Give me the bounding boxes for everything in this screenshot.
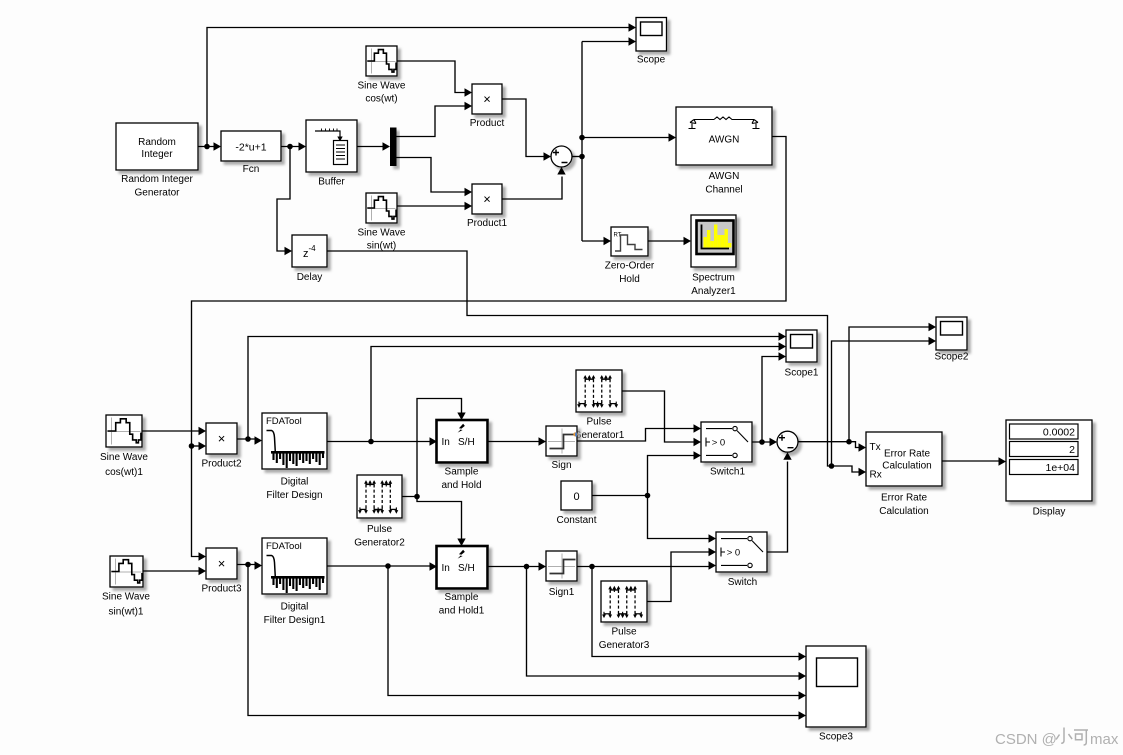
wire Product3 to Digital Filter Design1: [237, 561, 262, 569]
wire bus to Zero-Order Hold: [582, 237, 611, 245]
wire Switch1 output to Sum1 and Scope1 input3: [752, 352, 786, 446]
block Product3: [201, 548, 241, 595]
svg-text:Sine Wave: Sine Wave: [102, 592, 150, 603]
block Scope3: [806, 646, 866, 743]
wire Error Rate Calculation to Display: [942, 457, 1006, 465]
block Delay z^-4: [292, 235, 327, 283]
wire Product2 to Digital Filter Design: [237, 436, 262, 444]
svg-text:-4: -4: [309, 244, 317, 253]
wire AWGN feedback to Product2/Product3: [192, 137, 787, 561]
block Product1: [467, 184, 507, 229]
sum junction Sum (+ -): [551, 146, 572, 167]
block Zero-Order Hold: [605, 227, 655, 285]
svg-text:Generator3: Generator3: [599, 640, 650, 651]
wire Sine Wave cos to Product input1: [397, 61, 472, 97]
wire Product2 junction up to Scope1 input1: [248, 332, 786, 439]
svg-text:Sine Wave: Sine Wave: [100, 452, 148, 463]
wire Buffer to demux: [357, 142, 390, 150]
svg-text:Random Integer: Random Integer: [121, 174, 193, 185]
block Display: [1006, 420, 1092, 518]
svg-text:Product2: Product2: [201, 459, 241, 470]
svg-text:AWGN: AWGN: [709, 135, 740, 146]
node junction DFD1 output: [385, 563, 391, 569]
svg-text:Filter Design1: Filter Design1: [264, 615, 326, 626]
node junction Sign1 output: [589, 564, 595, 570]
svg-text:Zero-Order: Zero-Order: [605, 261, 655, 272]
svg-text:> 0: > 0: [727, 548, 740, 559]
block Spectrum Analyzer1: [691, 215, 736, 297]
svg-text:Error Rate: Error Rate: [884, 449, 931, 460]
svg-text:Sign1: Sign1: [549, 587, 575, 598]
block Sample and Hold: [437, 420, 488, 491]
svg-text:Product3: Product3: [201, 584, 241, 595]
block Switch1: [701, 422, 752, 478]
node junction Product2 output: [245, 436, 251, 442]
svg-text:Channel: Channel: [705, 185, 742, 196]
svg-text:Spectrum: Spectrum: [692, 273, 735, 284]
svg-text:×: ×: [483, 192, 491, 207]
wire Pulse Generator3 to Switch input2: [647, 548, 716, 602]
block Sign: [546, 426, 578, 471]
wire Sine Wave sin to Product1 input2: [397, 202, 472, 210]
block Pulse Generator1: [574, 370, 625, 441]
svg-text:Sine Wave: Sine Wave: [358, 228, 406, 239]
wire Delay-line junction to Rx and Scope2 input2: [832, 337, 937, 476]
svg-text:Product1: Product1: [467, 218, 507, 229]
wire DFD1 junction down to Scope3 input3: [388, 566, 806, 700]
wire Sign1 junction down to Scope3 input1: [592, 567, 806, 661]
node junction DFD output: [368, 439, 374, 445]
svg-text:Sample: Sample: [445, 467, 479, 478]
wire demux out2 to Product1 input1: [397, 158, 473, 197]
wire Sine sin1 to Product3 input2: [143, 567, 206, 575]
svg-text:Pulse: Pulse: [611, 627, 636, 638]
wire Product3 junction down to Scope3 input4: [248, 565, 806, 720]
wire Delay output long path to Rx: [327, 251, 832, 466]
svg-text:Calculation: Calculation: [879, 506, 928, 517]
wire DFD junction up to Scope1 input2: [371, 342, 786, 441]
wire Constant to Switch1 input3 and Switch input1: [592, 451, 716, 542]
svg-text:Digital: Digital: [281, 602, 309, 613]
demux bar: [390, 128, 397, 167]
block Error Rate Calculation: [866, 432, 942, 517]
svg-text:Scope2: Scope2: [935, 352, 969, 363]
svg-text:×: ×: [218, 431, 226, 446]
node junction Product3 output: [245, 562, 251, 568]
block Digital Filter Design1 FDATool: [262, 538, 327, 626]
svg-text:Pulse: Pulse: [367, 524, 392, 535]
block Switch: [716, 532, 767, 588]
svg-text:Calculation: Calculation: [882, 461, 931, 472]
svg-text:and Hold1: and Hold1: [439, 606, 485, 617]
svg-text:AWGN: AWGN: [709, 171, 740, 182]
svg-text:Scope: Scope: [637, 55, 666, 66]
svg-text:0.0002: 0.0002: [1043, 427, 1075, 439]
svg-text:Product: Product: [470, 118, 505, 129]
block Product: [470, 84, 505, 129]
svg-text:In: In: [442, 563, 450, 574]
block Buffer: [306, 120, 357, 188]
wire Zero-Order Hold to Spectrum Analyzer1: [648, 237, 691, 245]
svg-text:0: 0: [573, 491, 579, 503]
block Random Integer Generator: [116, 123, 198, 199]
watermark CSDN: [995, 728, 1119, 749]
wire Sum1 output to Tx and Scope2 input1: [798, 323, 936, 452]
wire Sign1 to Switch input3: [577, 561, 716, 569]
wire Sum output to vertical bus: [572, 156, 582, 158]
wire Product to Sum: [502, 99, 551, 161]
block Sine Wave cos(wt)1: [100, 415, 148, 478]
svg-text:2: 2: [1069, 444, 1075, 456]
wire Sample and Hold1 to Sign1: [488, 562, 547, 570]
node junction delay to Rx: [829, 463, 835, 469]
svg-text:S/H: S/H: [458, 563, 475, 574]
svg-text:FDATool: FDATool: [266, 416, 302, 427]
block Scope2: [935, 317, 969, 363]
svg-text:Sample: Sample: [445, 592, 479, 603]
wire Pulse Generator1 to Switch1 input2: [622, 391, 701, 446]
block Pulse Generator3: [599, 581, 650, 651]
svg-text:Fcn: Fcn: [243, 164, 260, 175]
wire Sample and Hold to Sign: [488, 437, 547, 445]
svg-text:Buffer: Buffer: [318, 177, 345, 188]
block Scope1: [785, 330, 819, 379]
svg-text:In: In: [442, 437, 450, 448]
block Fcn -2*u+1: [221, 131, 281, 175]
svg-text:FDATool: FDATool: [266, 541, 302, 552]
node junction after Fcn: [287, 144, 293, 150]
block Digital Filter Design FDATool: [262, 413, 327, 501]
node junction Pulse Generator2 output: [414, 494, 420, 500]
block AWGN Channel: [676, 107, 772, 196]
svg-text:Hold: Hold: [619, 274, 640, 285]
svg-text:Delay: Delay: [297, 272, 323, 283]
wire Product1 to Sum bottom: [502, 167, 566, 199]
wire Digital Filter Design1 to Sample and Hold1: [327, 562, 437, 570]
svg-text:Generator1: Generator1: [574, 430, 625, 441]
node junction feedback to Product2: [189, 442, 206, 450]
svg-text:Filter Design: Filter Design: [266, 490, 322, 501]
svg-text:Scope1: Scope1: [785, 368, 819, 379]
node junction Sum1 output: [846, 439, 852, 445]
block Product2: [201, 423, 241, 470]
block Sine Wave cos(wt): [358, 46, 406, 105]
svg-text:sin(wt)1: sin(wt)1: [108, 607, 143, 618]
svg-text:1e+04: 1e+04: [1046, 462, 1076, 474]
wire bus to AWGN input: [582, 133, 676, 141]
node junction to AWGN: [579, 135, 585, 141]
svg-text:Sign: Sign: [551, 460, 571, 471]
wire Switch output up to Sum1 bottom: [767, 452, 792, 552]
wire demux out1 to Product input2: [397, 102, 473, 137]
block Sine Wave sin(wt): [358, 193, 406, 252]
svg-text:Error Rate: Error Rate: [881, 493, 928, 504]
wire Digital Filter Design to Sample and Hold: [327, 437, 437, 445]
wire bus to Scope input2: [582, 37, 636, 45]
node junction sum output: [579, 154, 585, 160]
svg-text:and Hold: and Hold: [441, 480, 481, 491]
node junction Switch1 output: [759, 439, 765, 445]
wire junction up to Scope input1: [207, 23, 636, 146]
svg-text:Pulse: Pulse: [586, 417, 611, 428]
svg-text:Generator: Generator: [134, 188, 180, 199]
wire Sign to Switch1 input1: [577, 424, 701, 441]
block Pulse Generator2: [354, 475, 405, 549]
node junction Constant output: [645, 493, 651, 499]
svg-text:CSDN @: CSDN @: [995, 731, 1057, 748]
svg-text:-2*u+1: -2*u+1: [235, 142, 266, 154]
svg-text:Analyzer1: Analyzer1: [691, 286, 736, 297]
svg-text:> 0: > 0: [712, 438, 725, 449]
node junction after Random Integer: [204, 144, 210, 150]
svg-text:S/H: S/H: [458, 437, 475, 448]
svg-text:sin(wt): sin(wt): [367, 241, 396, 252]
svg-text:Switch: Switch: [728, 577, 757, 588]
wire Sine cos1 to Product2 input1: [142, 427, 206, 435]
block Sample and Hold1: [437, 546, 488, 617]
svg-text:Random: Random: [138, 137, 176, 148]
svg-text:cos(wt): cos(wt): [365, 94, 397, 105]
svg-text:cos(wt)1: cos(wt)1: [105, 467, 143, 478]
svg-text:Sine Wave: Sine Wave: [358, 81, 406, 92]
svg-text:×: ×: [483, 92, 491, 107]
svg-text:Generator2: Generator2: [354, 538, 405, 549]
sum junction Sum1 (+ -): [777, 431, 798, 452]
wire junction down to Delay input: [277, 147, 292, 256]
svg-text:×: ×: [218, 556, 226, 571]
svg-text:Integer: Integer: [141, 149, 173, 160]
svg-text:max: max: [1090, 731, 1119, 748]
svg-text:Tx: Tx: [870, 442, 881, 453]
block Sign1: [546, 551, 577, 598]
block Constant 0: [556, 481, 596, 526]
block Scope: [636, 18, 667, 66]
wire Fcn to Buffer: [281, 142, 306, 150]
svg-text:Display: Display: [1033, 507, 1066, 518]
svg-text:Constant: Constant: [556, 515, 596, 526]
wire RandomInteger to Fcn: [198, 142, 221, 150]
wire Pulse Generator2 to Sample and Hold triggers: [402, 399, 466, 547]
node junction S/H1 output: [524, 564, 530, 570]
svg-text:Switch1: Switch1: [710, 467, 745, 478]
wire vertical bus x582: [581, 42, 583, 242]
wire S/H1 junction down to Scope3 input2: [527, 567, 807, 681]
svg-text:Digital: Digital: [281, 477, 309, 488]
svg-text:Scope3: Scope3: [819, 732, 853, 743]
block Sine Wave sin(wt)1: [102, 556, 150, 618]
svg-text:Rx: Rx: [870, 470, 882, 481]
